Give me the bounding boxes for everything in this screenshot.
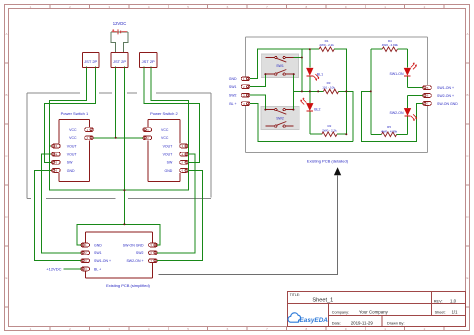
svg-text:SW2-ON +: SW2-ON + [126,259,143,263]
svg-text:1/1: 1/1 [452,309,458,314]
svg-text:BL1: BL1 [317,72,323,76]
svg-text:EasyEDA: EasyEDA [300,317,329,324]
svg-text:2019-11-29: 2019-11-29 [351,320,374,325]
svg-text:GND: GND [67,169,75,173]
svg-text:SW1: SW1 [94,251,102,255]
svg-text:BL +: BL + [229,102,236,106]
svg-text:TITLE:: TITLE: [290,293,300,297]
svg-text:101 - 10k: 101 - 10k [322,86,335,90]
svg-text:Power Switch 2: Power Switch 2 [150,111,178,116]
svg-text:JST 2P: JST 2P [113,59,126,64]
svg-text:Date:: Date: [332,321,341,325]
svg-text:A: A [466,32,468,36]
svg-text:VOUT: VOUT [163,153,174,157]
svg-text:VCC: VCC [69,136,77,140]
svg-text:Power Switch 1: Power Switch 1 [61,111,89,116]
svg-text:2W0 - 2.2k: 2W0 - 2.2k [319,43,334,47]
svg-text:2W0 - 2.2k: 2W0 - 2.2k [322,129,337,133]
svg-text:SW2-ON +: SW2-ON + [437,94,454,98]
svg-text:SW: SW [167,161,173,165]
svg-text:A: A [5,32,7,36]
svg-text:SW-ON GND: SW-ON GND [437,102,458,106]
svg-text:SW1: SW1 [276,64,284,68]
svg-text:VOUT: VOUT [163,144,174,148]
svg-text:E: E [466,276,468,280]
svg-text:JST 2P: JST 2P [84,59,97,64]
svg-text:SW1-ON +: SW1-ON + [94,259,111,263]
svg-text:4W0 - 4.99k: 4W0 - 4.99k [382,43,399,47]
svg-text:SW: SW [67,161,73,165]
svg-text:VCC: VCC [69,128,77,132]
svg-text:Sheet:: Sheet: [435,310,446,314]
svg-text:BL2: BL2 [314,108,320,112]
svg-text:JST 2P: JST 2P [142,59,155,64]
svg-text:12VDC: 12VDC [113,21,127,26]
svg-text:Company:: Company: [332,310,349,314]
svg-text:BL +: BL + [94,267,101,271]
svg-text:Drawn By:: Drawn By: [387,321,405,325]
svg-text:B: B [5,93,7,97]
svg-text:SW-ON GND: SW-ON GND [123,243,144,247]
svg-text:Existing PCB (simplified): Existing PCB (simplified) [106,283,150,288]
svg-text:SW1-ON +: SW1-ON + [437,86,454,90]
svg-text:1.0: 1.0 [450,298,457,303]
svg-text:VCC: VCC [161,136,169,140]
svg-text:VCC: VCC [161,128,169,132]
svg-text:GND: GND [165,169,173,173]
svg-text:GND: GND [94,243,102,247]
svg-text:B: B [466,93,468,97]
svg-text:+12VDC: +12VDC [46,266,61,271]
svg-text:SW2: SW2 [276,117,284,121]
svg-text:Your Company: Your Company [359,309,389,314]
svg-text:REV:: REV: [434,299,443,303]
svg-text:VOUT: VOUT [67,153,78,157]
svg-text:SW2-ON: SW2-ON [390,111,404,115]
svg-text:SW1: SW1 [229,85,237,89]
svg-text:GND: GND [229,77,237,81]
svg-text:E: E [5,276,7,280]
svg-text:SW2: SW2 [229,94,237,98]
svg-text:Sheet_1: Sheet_1 [312,298,333,304]
svg-text:4W0 - 4.99k: 4W0 - 4.99k [381,129,398,133]
svg-text:Existing PCB (detailed): Existing PCB (detailed) [307,159,349,164]
svg-text:SW2: SW2 [136,251,144,255]
svg-text:VOUT: VOUT [67,144,78,148]
svg-text:SW1-ON: SW1-ON [390,72,404,76]
